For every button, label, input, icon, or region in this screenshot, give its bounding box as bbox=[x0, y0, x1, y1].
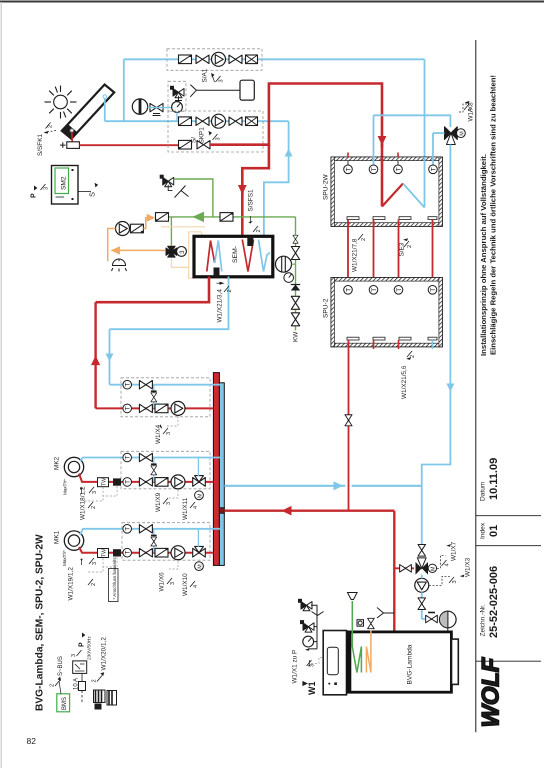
wire gauge down to blue line bbox=[176, 112, 178, 121]
wire blue top horizontal to tank riser bbox=[124, 58, 425, 60]
svg-text:2: 2 bbox=[256, 229, 262, 232]
svg-text:4: 4 bbox=[193, 585, 199, 588]
pressure gauge bbox=[172, 102, 183, 113]
bypass valve row1 bbox=[151, 393, 157, 402]
svg-text:W1: W1 bbox=[307, 682, 317, 696]
tank2 sensor T2 bbox=[369, 286, 378, 295]
shutoff valve below tank2 bbox=[345, 415, 352, 426]
svg-text:WOLF: WOLF bbox=[478, 656, 505, 727]
svg-text:230V/50Hz: 230V/50Hz bbox=[87, 636, 93, 660]
thermometer blue row1 bbox=[123, 380, 132, 389]
dashed box solar station 1 bbox=[167, 49, 262, 71]
wire red station2 to riser bbox=[210, 144, 269, 146]
svg-text:M: M bbox=[459, 131, 465, 136]
svg-text:S/E3: S/E3 bbox=[399, 242, 406, 256]
MK1 mixer circle bbox=[64, 531, 83, 550]
svg-text:3: 3 bbox=[216, 137, 222, 140]
wire red MK2 bbox=[79, 474, 213, 482]
valve station2 left bbox=[196, 117, 209, 125]
wire blue MK1 bbox=[80, 529, 222, 535]
svg-text:3: 3 bbox=[310, 664, 316, 667]
thermometer red MK2 bbox=[123, 478, 132, 487]
dirt separator box station1 bbox=[179, 55, 192, 64]
thermometer red MK1 bbox=[123, 548, 132, 557]
plus sign bbox=[60, 142, 66, 148]
tank1 sensor T4 bbox=[432, 133, 434, 165]
wire red tank interconnect 4 bbox=[432, 220, 434, 282]
wire valve left port to tank bbox=[433, 132, 445, 134]
valve station2 right bbox=[229, 117, 242, 125]
MK2 mixer circle bbox=[64, 457, 83, 476]
svg-text:Datum: Datum bbox=[480, 481, 487, 501]
wire green KW horizontal bbox=[167, 216, 295, 218]
svg-text:Einschlägige Regeln der Techni: Einschlägige Regeln der Technik und örtl… bbox=[489, 75, 498, 355]
TW limiter box MK1 bbox=[98, 549, 109, 558]
svg-text:* Anschluss bauseits: * Anschluss bauseits bbox=[112, 557, 117, 600]
manifold divider bbox=[219, 508, 224, 514]
valve red row1 bbox=[139, 404, 152, 412]
shutoff valve below pump bbox=[418, 598, 426, 610]
svg-text:W1/X6: W1/X6 bbox=[159, 572, 166, 592]
boiler green zigzag bbox=[352, 601, 361, 673]
M actuator MK2 bbox=[195, 491, 204, 500]
circle 3 actuator bbox=[177, 247, 187, 257]
wire orange to taps with arrow bbox=[114, 249, 165, 251]
svg-text:3: 3 bbox=[170, 582, 176, 585]
svg-text:S: S bbox=[88, 192, 97, 197]
blue drop to mixvalve MK1 bbox=[197, 529, 199, 547]
tank SPU-2 body bbox=[331, 278, 442, 347]
collector start fitting box bbox=[67, 142, 80, 149]
tank2 sensor T4 bbox=[428, 286, 437, 295]
boiler body bbox=[348, 632, 452, 692]
wire red solar supply horizontal bbox=[79, 144, 178, 146]
filter box row1 bbox=[155, 404, 168, 413]
svg-text:4: 4 bbox=[193, 506, 199, 509]
wire red tank interconnect 2 bbox=[373, 220, 375, 282]
cap valve vessel bbox=[150, 103, 163, 111]
green arrow left on KW line bbox=[194, 212, 204, 221]
wire vessel to gauge bbox=[148, 107, 172, 109]
terminal block 2 bbox=[107, 691, 117, 706]
SEM right heat exchanger zigzag bbox=[242, 240, 253, 272]
red return separator box bbox=[179, 140, 192, 149]
svg-text:W1/X11: W1/X11 bbox=[182, 497, 189, 520]
tank2 sensor T3 bbox=[394, 286, 403, 295]
arrow for S/SFK1 bbox=[44, 131, 49, 134]
shower tap icon bbox=[112, 259, 127, 272]
W1 gauge bbox=[303, 636, 314, 647]
svg-text:P: P bbox=[31, 193, 38, 198]
wire red tank interconnect 3 bbox=[398, 220, 400, 282]
sensor well bottom bbox=[214, 268, 220, 277]
W1 group piping bbox=[308, 605, 317, 649]
svg-text:2: 2 bbox=[48, 125, 54, 128]
valve red MK1 bbox=[139, 549, 152, 557]
svg-text:2: 2 bbox=[91, 506, 97, 509]
3-way valve boiler W1/X7 bbox=[416, 558, 429, 575]
thermostatic mixing valve 3 bbox=[166, 246, 177, 257]
svg-text:M: M bbox=[431, 567, 437, 571]
svg-text:A: A bbox=[468, 108, 474, 112]
pump row1 bbox=[171, 401, 185, 415]
circulation filter box bbox=[130, 224, 143, 233]
svg-text:3: 3 bbox=[166, 502, 172, 505]
tank1 sensor T3 bbox=[397, 153, 399, 158]
W1 safety group black valve 1 bbox=[298, 599, 312, 611]
wire red main corner down to boiler bbox=[393, 511, 395, 631]
bypass wire row1 bbox=[153, 385, 155, 409]
wire pale upper duct bbox=[161, 226, 205, 228]
svg-text:TW: TW bbox=[102, 549, 108, 557]
wire green safety to down leg bbox=[174, 179, 213, 217]
page left edge line bbox=[0, 2, 2, 768]
svg-text:BMS: BMS bbox=[62, 697, 68, 710]
S-BUS line from SM2 bbox=[78, 191, 91, 193]
arrow S/A1 bbox=[211, 73, 215, 78]
relay box bbox=[73, 661, 87, 674]
wire red SEM left leg bbox=[96, 277, 209, 303]
inlet valve horizontal bbox=[426, 615, 438, 623]
tank1 sensor T2 bbox=[373, 115, 375, 165]
svg-text:3: 3 bbox=[71, 654, 77, 657]
svg-text:W1/X3: W1/X3 bbox=[465, 557, 472, 577]
svg-text:25-52-025-006: 25-52-025-006 bbox=[488, 566, 500, 638]
red arrow up on riser bbox=[91, 356, 100, 366]
svg-text:82: 82 bbox=[27, 736, 37, 746]
expansion vessel MAG bbox=[240, 80, 254, 100]
tundish Y above SEM bbox=[168, 185, 172, 191]
bypass wire MK2 bbox=[153, 458, 155, 482]
blue arrow right on main bbox=[334, 481, 344, 490]
SEM box bbox=[194, 236, 273, 276]
svg-text:3: 3 bbox=[92, 491, 98, 494]
separator rule bbox=[475, 40, 477, 732]
svg-text:S~BUS: S~BUS bbox=[58, 656, 64, 676]
orange arrow into filter bbox=[147, 214, 156, 222]
boiler union circle bbox=[440, 611, 457, 628]
filter box on KW line right bbox=[220, 213, 233, 222]
dashed box solar station 2 bbox=[168, 111, 263, 152]
wire into boiler top right bbox=[447, 628, 449, 631]
M actuator MK1 bbox=[195, 562, 204, 571]
mixing valve MK1 bbox=[193, 546, 206, 557]
svg-text:W1/X1 zu P: W1/X1 zu P bbox=[292, 650, 299, 684]
svg-text:2: 2 bbox=[407, 245, 413, 248]
dashed box safety group bbox=[168, 81, 186, 111]
wire to expansion vessel bbox=[202, 89, 240, 91]
air vent fork bbox=[377, 608, 394, 619]
flowmeter station2 bbox=[246, 117, 258, 126]
solar safety valve W bbox=[170, 86, 184, 98]
SEM left heat exchanger zigzag bbox=[207, 241, 215, 272]
wire orange circulation bbox=[108, 229, 116, 262]
wire blue main to boiler bbox=[224, 485, 345, 487]
bypass valve MK2 bbox=[151, 466, 157, 475]
bypass wire MK1 bbox=[153, 529, 155, 553]
svg-text:W1/X19/1,2: W1/X19/1,2 bbox=[68, 567, 75, 601]
bypass valve MK1 bbox=[151, 537, 157, 546]
note box Anschluss bauseits bbox=[109, 569, 119, 602]
W1 safety group black valve 2 bbox=[300, 620, 314, 632]
svg-text:S/SFK1: S/SFK1 bbox=[37, 134, 44, 156]
boiler control panel bbox=[323, 631, 346, 695]
terminal block 1 bbox=[94, 690, 106, 710]
flowmeter station1 bbox=[246, 55, 258, 64]
wire red branch to 3way bbox=[394, 567, 414, 569]
pump S/SKP1 bbox=[212, 114, 226, 128]
svg-text:3: 3 bbox=[44, 187, 50, 190]
svg-text:W1/X7: W1/X7 bbox=[451, 541, 458, 561]
wire blue valve to pump bbox=[421, 575, 423, 579]
wire red branch down to SEM bbox=[242, 145, 269, 196]
svg-text:3: 3 bbox=[92, 562, 98, 565]
slash mark 2 for S/SFK1 bbox=[46, 123, 51, 129]
wire red tank interconnect 1 bbox=[347, 220, 349, 282]
sun icon bbox=[45, 86, 77, 119]
W1 drain arrow bbox=[305, 648, 310, 651]
BMS box bbox=[57, 694, 70, 712]
pump MK2 bbox=[171, 475, 185, 489]
wire red tank2 to bottom bbox=[348, 340, 350, 511]
svg-text:01: 01 bbox=[488, 525, 500, 537]
check valve KW bbox=[291, 285, 300, 291]
section divider zeichn bbox=[476, 660, 541, 662]
wire blue top loop: down from top line to station2 line bbox=[123, 59, 125, 121]
3-way valve W1/X8 bbox=[445, 127, 458, 145]
mixing valve MK2 bbox=[193, 476, 206, 487]
tundish for W1 group bbox=[312, 612, 324, 616]
svg-text:SKP1: SKP1 bbox=[199, 127, 206, 144]
membrane vessel circle bbox=[132, 99, 147, 114]
svg-text:Index: Index bbox=[480, 522, 487, 539]
svg-text:S/A1: S/A1 bbox=[202, 68, 209, 82]
TW limiter box MK2 bbox=[98, 478, 109, 487]
filter box MK2 bbox=[155, 478, 168, 487]
thermometer blue MK2 bbox=[123, 453, 132, 462]
dashed box MK2 bbox=[121, 451, 210, 489]
pump MK1 bbox=[171, 546, 185, 560]
svg-text:SM2: SM2 bbox=[61, 176, 68, 190]
svg-text:3: 3 bbox=[219, 79, 225, 82]
svg-text:MK1: MK1 bbox=[54, 530, 61, 544]
tank1 coil red downpipe bbox=[381, 157, 384, 207]
blue drop to mixvalve MK2 bbox=[197, 458, 199, 477]
valve blue row1 bbox=[139, 381, 152, 389]
manifold blue bar bbox=[219, 383, 224, 566]
svg-text:Zeichn.-Nr.: Zeichn.-Nr. bbox=[480, 604, 487, 636]
sensor box with circle bbox=[357, 620, 364, 627]
slash 3 S/A1 bbox=[216, 76, 221, 82]
collector outlet red drop bbox=[71, 132, 74, 143]
circulation pump TWW bbox=[116, 222, 130, 236]
valve blue MK2 bbox=[139, 453, 152, 461]
svg-text:2: 2 bbox=[361, 238, 367, 241]
valve station1 right bbox=[229, 55, 242, 63]
shutoff valve KW riser bbox=[291, 247, 299, 260]
arrow SKP1 bbox=[209, 131, 213, 136]
safety valve W above SEM bbox=[160, 175, 174, 187]
shutoff valve KW 2 bbox=[291, 296, 299, 309]
tank1 coil blue riser inside bbox=[424, 157, 426, 208]
wire blue tank1 top branch bbox=[374, 115, 451, 127]
page top edge line bbox=[0, 1, 544, 3]
svg-text:W1/X21/3,4: W1/X21/3,4 bbox=[217, 289, 224, 323]
red arrow left on main bbox=[282, 506, 292, 516]
svg-text:SEM-: SEM- bbox=[232, 246, 239, 263]
section divider datum bbox=[476, 515, 541, 517]
boiler orange zigzag bbox=[366, 631, 371, 673]
tank2 sensor T1 bbox=[344, 286, 353, 295]
blue stub below tank2 bbox=[432, 340, 434, 349]
shutoff valve KW 3 bbox=[291, 313, 299, 326]
wire blue valve bottom long down bbox=[422, 145, 451, 545]
svg-text:10.11.09: 10.11.09 bbox=[488, 458, 500, 500]
svg-text:4: 4 bbox=[445, 563, 451, 566]
svg-text:W1/X9: W1/X9 bbox=[155, 492, 162, 512]
svg-text:2: 2 bbox=[92, 679, 98, 682]
svg-text:S/SFS1: S/SFS1 bbox=[248, 189, 255, 211]
svg-text:BVG-Lambda: BVG-Lambda bbox=[407, 644, 414, 684]
red arrow down into tank coil bbox=[378, 136, 387, 146]
svg-text:W1/X21/5,6: W1/X21/5,6 bbox=[401, 365, 408, 399]
svg-text:MK2: MK2 bbox=[54, 456, 61, 470]
svg-text:KW: KW bbox=[293, 331, 300, 342]
valve station1 left bbox=[196, 55, 209, 63]
slash 3 SM2 bbox=[41, 184, 46, 190]
wire blue MK2 bbox=[80, 458, 222, 462]
shutoff valve red branch bbox=[400, 565, 412, 573]
wire red coil continue bbox=[381, 143, 384, 207]
tank1 coil red segment bbox=[382, 184, 403, 207]
blue arrow down on long line bbox=[446, 384, 454, 392]
dirt separator box station2 bbox=[179, 117, 192, 126]
wire red row1 bbox=[96, 407, 214, 409]
red stub below tank2 mid2 bbox=[398, 340, 400, 349]
wire blue coil return riser from tank bbox=[424, 59, 426, 207]
wire red riser to SEM return (left) bbox=[94, 302, 96, 408]
boiler flue attachment bbox=[452, 639, 459, 684]
sensor well top (S/SFS1) bbox=[247, 237, 253, 247]
svg-text:W1/X21/7,8: W1/X21/7,8 bbox=[352, 238, 359, 272]
svg-text:W1/X18/1,2: W1/X18/1,2 bbox=[80, 486, 87, 520]
filter box MK1 bbox=[155, 548, 168, 557]
svg-text:SPU-2W: SPU-2W bbox=[323, 174, 330, 200]
svg-text:2: 2 bbox=[50, 684, 56, 687]
gauge on KW riser bbox=[284, 273, 294, 283]
slash 3 SKP1 bbox=[213, 134, 218, 140]
svg-text:2: 2 bbox=[410, 355, 416, 358]
wire blue row1 bbox=[110, 384, 222, 386]
section divider index bbox=[476, 545, 541, 547]
blue arrow up bbox=[285, 149, 293, 157]
tank2 bottom ports bbox=[347, 337, 437, 340]
dashed box MK1 bbox=[122, 523, 210, 561]
wire green drop to mixing valve bbox=[170, 217, 172, 246]
sensor block MK1 bbox=[113, 549, 121, 556]
red return valve bbox=[197, 141, 210, 149]
tank1 sensor T1 bbox=[347, 153, 349, 158]
thermometer red row1 bbox=[123, 404, 132, 413]
svg-text:2: 2 bbox=[91, 583, 97, 586]
boiler pump bbox=[415, 578, 429, 592]
svg-text:Installationsprinzip ohne Ansp: Installationsprinzip ohne Anspruch auf V… bbox=[479, 154, 488, 356]
tank SPU-2W body bbox=[331, 157, 442, 226]
wire red riser right: up to tank feed bbox=[210, 84, 382, 148]
pump S/A1 bbox=[212, 52, 226, 66]
tundish funnel bbox=[175, 98, 182, 101]
svg-text:MaxTh*: MaxTh* bbox=[62, 550, 67, 566]
svg-text:SPU-2: SPU-2 bbox=[323, 298, 330, 318]
svg-text:P: P bbox=[79, 642, 86, 647]
M actuator boiler valve bbox=[428, 564, 436, 572]
svg-text:2: 2 bbox=[227, 289, 233, 292]
small vent valve on KW riser bbox=[293, 235, 298, 243]
blue arrow down on riser bbox=[106, 354, 114, 362]
filter box on KW line left bbox=[156, 213, 169, 222]
svg-text:3: 3 bbox=[452, 580, 458, 583]
svg-text:W1/X20/1,2: W1/X20/1,2 bbox=[101, 637, 108, 671]
wire blue riser from SEM (left) bbox=[109, 329, 111, 385]
solar collector panel bbox=[62, 85, 114, 139]
wire blue station2 horizontal bbox=[105, 120, 289, 122]
SM2 module bbox=[52, 166, 79, 205]
valve red MK2 bbox=[139, 478, 152, 486]
svg-text:M: M bbox=[197, 493, 203, 498]
thermometer blue MK1 bbox=[123, 525, 132, 534]
wire blue pump down bbox=[421, 592, 423, 619]
wire blue collector return riser bbox=[104, 98, 106, 121]
sensor block MK2 bbox=[113, 478, 121, 485]
tank1 coil blue segment bbox=[403, 184, 425, 208]
svg-text:W1/X10: W1/X10 bbox=[182, 573, 189, 596]
svg-text:3: 3 bbox=[166, 432, 172, 435]
svg-text:TW: TW bbox=[102, 478, 108, 486]
manifold red bar bbox=[213, 373, 219, 566]
wire gauge up to safety valve bbox=[178, 96, 180, 102]
valve M actuator W1/X8 bbox=[457, 129, 466, 138]
red stub below tank2 mid1 bbox=[373, 340, 375, 349]
svg-text:M: M bbox=[197, 564, 203, 569]
wire red MK1 bbox=[79, 547, 213, 553]
dashed box row1 bbox=[121, 378, 210, 417]
wire green KW riser down bbox=[295, 217, 297, 331]
shutoff valve blue drop bbox=[418, 544, 426, 556]
wire blue SEM left leg bbox=[110, 277, 229, 330]
svg-text:MaxTh*: MaxTh* bbox=[63, 479, 68, 495]
boiler left black band bbox=[347, 631, 352, 694]
wire blue corner into boiler inlet bbox=[422, 618, 425, 620]
wire red main from manifold bbox=[224, 510, 394, 512]
boiler drain valve bbox=[368, 618, 375, 628]
valve blue MK1 bbox=[139, 525, 152, 533]
wire blue jog to SEM bbox=[264, 121, 289, 236]
svg-text:BVG-Lambda, SEM-, SPU-2, SPU-2: BVG-Lambda, SEM-, SPU-2, SPU-2W bbox=[35, 534, 46, 711]
tank1 bottom ports bbox=[347, 217, 437, 220]
water meter circle bbox=[276, 256, 296, 272]
wire pale outlet loop below valve bbox=[171, 259, 194, 279]
boiler tundish funnel bbox=[348, 593, 358, 600]
